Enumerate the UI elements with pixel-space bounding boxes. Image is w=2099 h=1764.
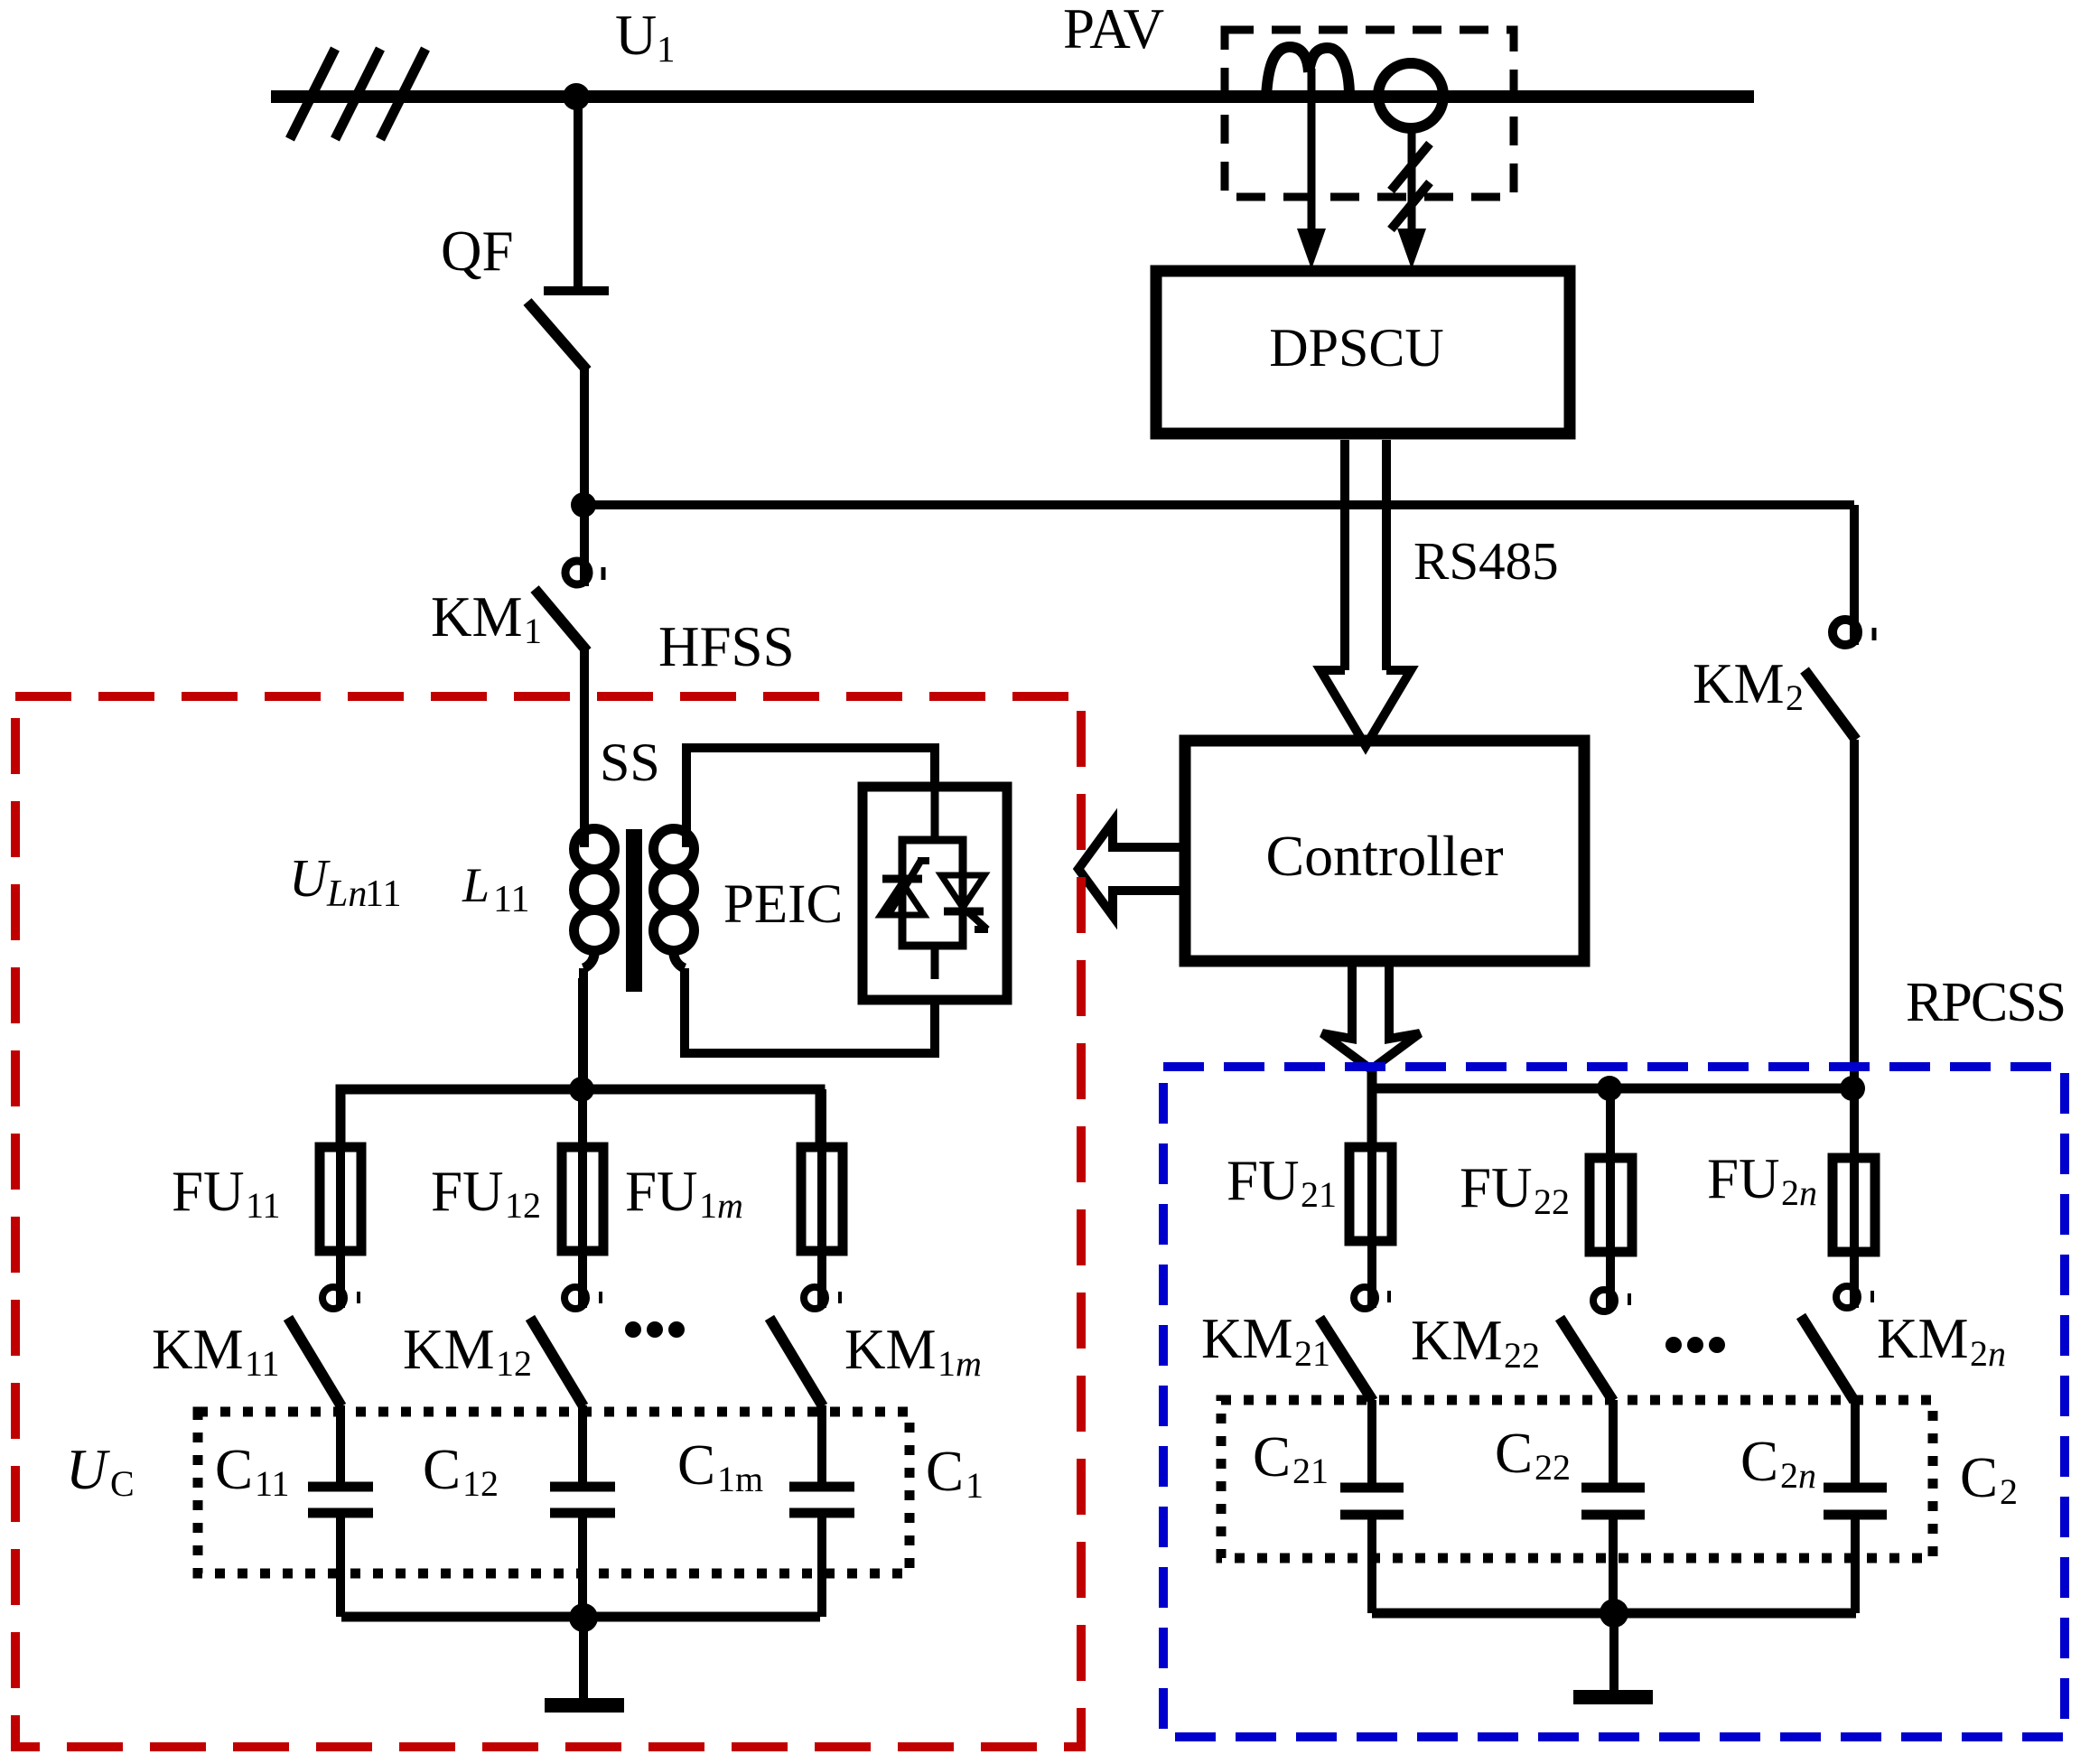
svg-text:1: 1 bbox=[938, 1343, 956, 1384]
svg-text:FU: FU bbox=[431, 1160, 504, 1223]
svg-text:1: 1 bbox=[966, 1465, 984, 1506]
svg-text:22: 22 bbox=[1534, 1181, 1570, 1222]
svg-text:PAV: PAV bbox=[1063, 0, 1164, 61]
svg-text:21: 21 bbox=[1294, 1333, 1330, 1374]
svg-text:KM: KM bbox=[431, 585, 523, 649]
svg-text:11: 11 bbox=[245, 1343, 280, 1384]
svg-text:1: 1 bbox=[699, 1185, 717, 1226]
svg-text:2: 2 bbox=[1781, 1172, 1799, 1213]
svg-text:11: 11 bbox=[255, 1463, 290, 1504]
svg-text:C: C bbox=[926, 1440, 964, 1503]
svg-text:FU: FU bbox=[172, 1160, 245, 1223]
svg-text:C: C bbox=[423, 1438, 461, 1501]
svg-text:U: U bbox=[615, 3, 657, 67]
svg-text:C: C bbox=[1253, 1425, 1291, 1489]
svg-text:QF: QF bbox=[441, 219, 514, 283]
svg-text:C: C bbox=[1740, 1430, 1778, 1493]
svg-text:Controller: Controller bbox=[1265, 824, 1503, 888]
svg-text:1: 1 bbox=[524, 611, 542, 651]
svg-text:2: 2 bbox=[1780, 1455, 1798, 1496]
svg-text:U: U bbox=[66, 1438, 110, 1501]
svg-text:11: 11 bbox=[246, 1185, 281, 1226]
svg-text:DPSCU: DPSCU bbox=[1269, 318, 1443, 378]
svg-text:m: m bbox=[956, 1343, 982, 1384]
svg-text:21: 21 bbox=[1301, 1174, 1337, 1215]
svg-text:RS485: RS485 bbox=[1413, 531, 1559, 591]
svg-text:n: n bbox=[1798, 1455, 1816, 1496]
svg-text:C: C bbox=[1960, 1446, 1998, 1509]
svg-text:n: n bbox=[1799, 1172, 1817, 1213]
svg-text:FU: FU bbox=[1707, 1147, 1780, 1210]
svg-text:C: C bbox=[1495, 1422, 1533, 1485]
svg-text:11: 11 bbox=[365, 873, 401, 915]
svg-text:PEIC: PEIC bbox=[723, 874, 843, 935]
svg-text:1m: 1m bbox=[717, 1459, 763, 1499]
svg-text:12: 12 bbox=[505, 1185, 541, 1226]
svg-text:2: 2 bbox=[1786, 677, 1804, 718]
svg-text:22: 22 bbox=[1535, 1447, 1571, 1488]
svg-text:21: 21 bbox=[1292, 1451, 1329, 1491]
svg-text:Ln: Ln bbox=[326, 873, 367, 915]
svg-text:KM: KM bbox=[152, 1318, 244, 1381]
svg-text:SS: SS bbox=[600, 733, 660, 792]
svg-text:KM: KM bbox=[403, 1318, 495, 1381]
svg-text:L: L bbox=[462, 858, 490, 912]
svg-text:12: 12 bbox=[462, 1463, 499, 1504]
svg-text:m: m bbox=[717, 1185, 743, 1226]
svg-text:n: n bbox=[1988, 1333, 2006, 1374]
svg-text:C: C bbox=[215, 1438, 253, 1501]
svg-text:KM: KM bbox=[1693, 652, 1785, 715]
svg-text:FU: FU bbox=[625, 1160, 698, 1223]
svg-text:C: C bbox=[110, 1463, 135, 1504]
svg-text:C: C bbox=[677, 1433, 715, 1497]
svg-text:KM: KM bbox=[1877, 1307, 1969, 1370]
svg-text:FU: FU bbox=[1227, 1149, 1300, 1212]
svg-text:KM: KM bbox=[1201, 1307, 1293, 1370]
svg-text:FU: FU bbox=[1460, 1156, 1533, 1219]
svg-text:11: 11 bbox=[493, 879, 529, 920]
svg-text:2: 2 bbox=[1970, 1333, 1988, 1374]
svg-text:KM: KM bbox=[1411, 1309, 1503, 1372]
svg-text:1: 1 bbox=[657, 28, 676, 70]
svg-text:22: 22 bbox=[1504, 1335, 1540, 1376]
svg-text:2: 2 bbox=[2000, 1471, 2018, 1512]
svg-text:U: U bbox=[289, 848, 331, 908]
svg-text:KM: KM bbox=[844, 1318, 937, 1381]
svg-text:RPCSS: RPCSS bbox=[1906, 972, 2065, 1033]
svg-text:12: 12 bbox=[496, 1343, 532, 1384]
svg-text:HFSS: HFSS bbox=[658, 615, 795, 678]
